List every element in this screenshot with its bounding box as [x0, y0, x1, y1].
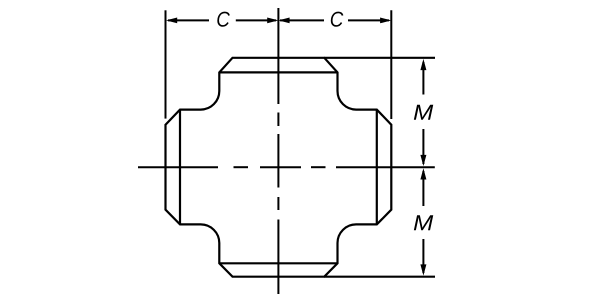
dimension line C right [280, 19, 389, 21]
weld bevel line right end [376, 110, 378, 225]
weld bevel line bottom end [219, 262, 337, 264]
cross fitting body outline [166, 58, 392, 277]
extension line left (dimension C) [165, 10, 167, 118]
extension line top face (dimension M) [324, 57, 435, 59]
arrowhead M upper, down tip [420, 155, 426, 166]
arrowhead C left, left tip [166, 18, 177, 24]
arrowhead M lower, up tip [420, 168, 426, 179]
weld bevel line top end [219, 71, 337, 73]
arrowhead C left, right tip [267, 18, 278, 24]
dimension line M upper [422, 62, 424, 164]
arrowhead C right, left tip [278, 18, 289, 24]
label M lower [414, 215, 433, 230]
dimension line M lower [422, 171, 424, 273]
label M upper [414, 105, 433, 120]
label C right [331, 12, 344, 27]
dimension line C left [168, 19, 276, 21]
vertical centerline [277, 8, 279, 294]
extension line bottom face (dimension M) [324, 276, 435, 278]
arrowhead M lower, down tip [420, 264, 426, 275]
horizontal centerline [138, 166, 435, 168]
weld bevel line left end [179, 110, 181, 225]
label C left [217, 12, 230, 27]
extension line right (dimension C) [390, 10, 392, 119]
arrowhead M upper, up tip [420, 59, 426, 70]
arrowhead C right, right tip [380, 18, 391, 24]
